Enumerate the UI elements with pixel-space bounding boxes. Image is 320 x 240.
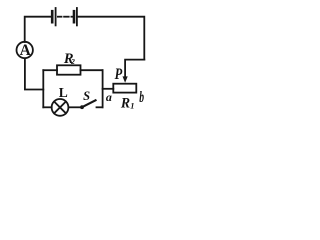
svg-text:R: R: [120, 95, 131, 112]
lamp L cross stroke 2: [54, 102, 66, 114]
wiper arrow head P pointing down at R1: [123, 76, 128, 82]
wire lead into battery cell 2: [71, 16, 73, 18]
battery cell 2 long plate (positive): [76, 8, 78, 25]
wire top branch right segment: [81, 69, 103, 71]
battery cell 1 long plate (positive): [55, 8, 57, 25]
svg-text:S: S: [83, 89, 90, 103]
battery cell 2 short plate (negative): [73, 11, 76, 22]
svg-text:P: P: [115, 66, 123, 84]
switch S blade (open): [82, 100, 96, 107]
svg-text:2: 2: [70, 57, 75, 66]
wire top-right and right vertical down: [77, 17, 144, 60]
wire dashed battery link segment 1: [58, 16, 62, 18]
wire lamp to switch pivot: [68, 106, 80, 108]
battery cell 1 short plate (negative): [51, 11, 54, 22]
svg-text:A: A: [20, 42, 32, 59]
wire bottom branch left segment: [43, 106, 51, 108]
svg-text:L: L: [59, 85, 68, 100]
lamp L circle: [52, 99, 69, 116]
ammeter A circle: [17, 42, 33, 58]
svg-text:a: a: [106, 90, 112, 104]
switch S pivot dot: [80, 105, 84, 109]
wire jog left then wiper shaft down: [125, 60, 144, 78]
wire right node vertical: [102, 70, 104, 107]
wire left node vertical: [42, 70, 44, 107]
wire top branch left segment: [43, 69, 57, 71]
wire top-left: corner down to ammeter, corner right to battery: [25, 17, 53, 42]
lamp L cross stroke 1: [54, 102, 66, 114]
wire ammeter bottom down then right to left node: [25, 58, 43, 89]
rheostat R1 box: [113, 84, 136, 93]
wire switch fixed contact stub: [97, 106, 103, 108]
resistor R2 box: [57, 65, 81, 74]
wire rheostat terminal a lead: [103, 88, 114, 90]
wire dashed battery link segment 2: [64, 16, 69, 18]
svg-text:b: b: [139, 89, 144, 106]
svg-text:1: 1: [130, 100, 134, 110]
